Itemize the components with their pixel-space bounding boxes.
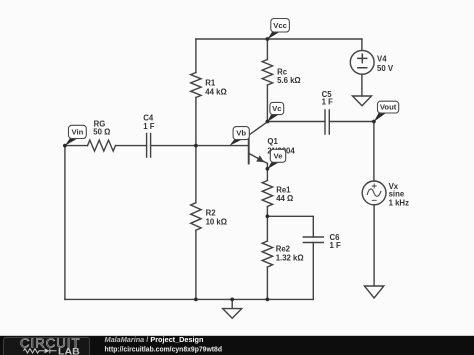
resistor Rc xyxy=(262,60,272,86)
svg-text:R2: R2 xyxy=(206,209,217,218)
wire Vx bottom stem xyxy=(373,205,375,286)
svg-text:44 Ω: 44 Ω xyxy=(276,194,293,203)
resistor R2 xyxy=(191,203,201,231)
svg-text:V4: V4 xyxy=(377,55,387,64)
CircuitLab logo box xyxy=(4,337,90,355)
transistor Q1 xyxy=(248,133,250,164)
node base/R1/R2 junction xyxy=(194,144,198,148)
ground (bottom rail) xyxy=(223,299,242,318)
svg-text:Re2: Re2 xyxy=(276,245,291,254)
flag Ve xyxy=(267,149,285,169)
node Vc xyxy=(266,120,270,124)
voltage source Vx sine xyxy=(362,181,386,205)
svg-text:Vcc: Vcc xyxy=(273,21,287,30)
node Vin xyxy=(63,144,67,148)
wire RG to C4 xyxy=(116,145,147,147)
capacitor C5 xyxy=(325,110,329,134)
svg-text:Re1: Re1 xyxy=(276,185,291,194)
ground (below V4) xyxy=(353,96,372,106)
voltage source V4 xyxy=(350,50,374,74)
svg-text:sine: sine xyxy=(389,190,405,199)
node R2/bottom rail xyxy=(194,298,198,302)
svg-text:Vc: Vc xyxy=(272,104,282,113)
svg-text:10 kΩ: 10 kΩ xyxy=(206,218,227,227)
wire Vc to C5 xyxy=(267,121,325,123)
wire C6 bottom xyxy=(312,243,314,300)
resistor Re2 xyxy=(262,241,272,267)
svg-text:Rc: Rc xyxy=(277,68,288,77)
capacitor C4 xyxy=(147,134,151,158)
wire C5 to Vout xyxy=(329,121,374,123)
svg-text:50 V: 50 V xyxy=(377,64,394,73)
svg-text:R1: R1 xyxy=(205,79,216,88)
flag Vin xyxy=(65,125,86,146)
wire V4 bottom stem xyxy=(361,74,363,96)
svg-text:Q1: Q1 xyxy=(267,137,278,146)
svg-text:LAB: LAB xyxy=(58,346,80,355)
node Re2/bottom rail xyxy=(266,298,270,302)
wire C4 to Q1 base xyxy=(151,145,249,147)
wire top rail xyxy=(196,38,362,40)
junction node dots xyxy=(63,37,376,301)
svg-text:1 kHz: 1 kHz xyxy=(389,198,409,207)
node Re1/Re2/C6 junction xyxy=(266,214,270,218)
svg-text:Vin: Vin xyxy=(71,128,83,137)
wire Re2 bottom xyxy=(266,267,268,299)
node Vout xyxy=(372,120,376,124)
node Vcc junction xyxy=(266,37,270,41)
transistor Q1 emitter arrow xyxy=(256,155,264,162)
svg-text:Vb: Vb xyxy=(236,129,246,138)
wire Vin to RG xyxy=(65,145,88,147)
flag Vcc xyxy=(267,19,289,40)
svg-text:Ve: Ve xyxy=(274,151,284,160)
node ground/bottom rail xyxy=(230,298,234,302)
wire bottom rail xyxy=(65,298,313,300)
wire Rc branch top xyxy=(266,39,268,60)
resistor RG xyxy=(88,140,116,151)
svg-text:50 Ω: 50 Ω xyxy=(93,127,110,136)
wire V4 top stub xyxy=(361,39,363,50)
svg-text:Vout: Vout xyxy=(380,103,397,112)
svg-text:1.32 kΩ: 1.32 kΩ xyxy=(276,253,304,262)
wire Rc to Vc node xyxy=(266,85,268,122)
wire C6 branch xyxy=(267,216,313,237)
wire Vout branch down xyxy=(373,122,375,182)
CircuitLab logo resistor squiggle xyxy=(24,348,57,353)
svg-text:MalaMarina / Project_Design: MalaMarina / Project_Design xyxy=(105,335,204,344)
flag Vc xyxy=(267,102,283,121)
svg-text:1 F: 1 F xyxy=(330,241,342,250)
resistor Re1 xyxy=(262,181,272,207)
flag Vb xyxy=(229,127,249,146)
svg-text:1 F: 1 F xyxy=(322,98,334,107)
wire R1 branch top xyxy=(195,39,197,73)
wire emitter to Re1 xyxy=(266,163,268,180)
svg-text:http://circuitlab.com/cyn8x9p7: http://circuitlab.com/cyn8x9p79wt8d xyxy=(105,344,223,353)
wire Re1 to node xyxy=(266,207,268,242)
ground (below Vx) xyxy=(364,286,383,298)
svg-text:1 F: 1 F xyxy=(143,122,155,131)
resistor R1 xyxy=(191,73,201,98)
svg-text:5.6 kΩ: 5.6 kΩ xyxy=(277,76,301,85)
capacitor C6 xyxy=(303,237,323,243)
footer bar xyxy=(0,336,474,355)
wire R2 branch bottom xyxy=(195,230,197,299)
wire R2 branch top xyxy=(195,146,197,203)
node Ve emitter xyxy=(266,167,270,171)
wire R1 branch bottom xyxy=(195,98,197,146)
flag Vout xyxy=(374,101,399,122)
wire left vertical xyxy=(64,146,66,300)
svg-text:44 kΩ: 44 kΩ xyxy=(205,87,226,96)
